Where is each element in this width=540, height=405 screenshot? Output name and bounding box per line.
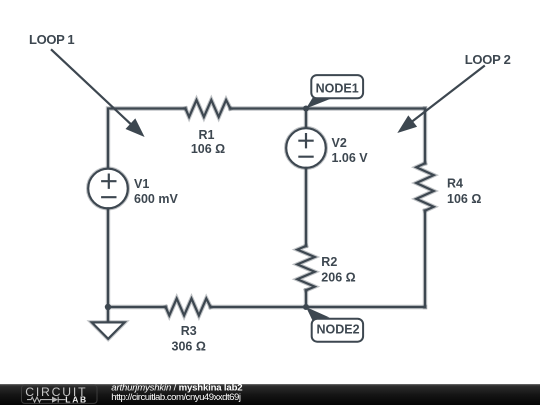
svg-text:V1: V1 — [134, 177, 149, 191]
svg-text:V2: V2 — [332, 136, 347, 150]
svg-text:600 mV: 600 mV — [134, 192, 178, 206]
svg-text:1.06 V: 1.06 V — [332, 151, 369, 165]
svg-text:106 Ω: 106 Ω — [191, 142, 225, 156]
svg-text:R3: R3 — [181, 324, 197, 338]
svg-text:106 Ω: 106 Ω — [447, 192, 481, 206]
svg-text:R4: R4 — [447, 176, 463, 190]
svg-text:R1: R1 — [199, 128, 215, 142]
svg-text:206 Ω: 206 Ω — [321, 271, 355, 285]
svg-text:NODE2: NODE2 — [316, 323, 359, 337]
svg-text:LOOP 1: LOOP 1 — [29, 32, 75, 47]
svg-text:R2: R2 — [321, 255, 337, 269]
svg-text:LOOP 2: LOOP 2 — [465, 52, 511, 67]
svg-text:http://circuitlab.com/cnyu49xx: http://circuitlab.com/cnyu49xxdt69j — [111, 392, 241, 403]
svg-text:LAB: LAB — [65, 394, 90, 404]
svg-text:306 Ω: 306 Ω — [172, 339, 206, 353]
svg-text:NODE1: NODE1 — [316, 81, 359, 95]
